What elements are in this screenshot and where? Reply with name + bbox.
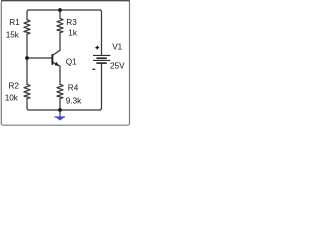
svg-text:R3: R3 <box>66 18 77 27</box>
svg-text:V1: V1 <box>112 43 122 52</box>
svg-text:10k: 10k <box>5 93 19 102</box>
svg-text:15k: 15k <box>6 31 20 40</box>
svg-text:1k: 1k <box>68 28 78 37</box>
svg-text:R1: R1 <box>9 18 20 27</box>
svg-text:R4: R4 <box>68 84 79 93</box>
svg-text:25V: 25V <box>110 62 125 71</box>
svg-text:Q1: Q1 <box>66 57 77 66</box>
svg-text:R2: R2 <box>9 82 20 91</box>
svg-text:9.3k: 9.3k <box>66 96 82 105</box>
